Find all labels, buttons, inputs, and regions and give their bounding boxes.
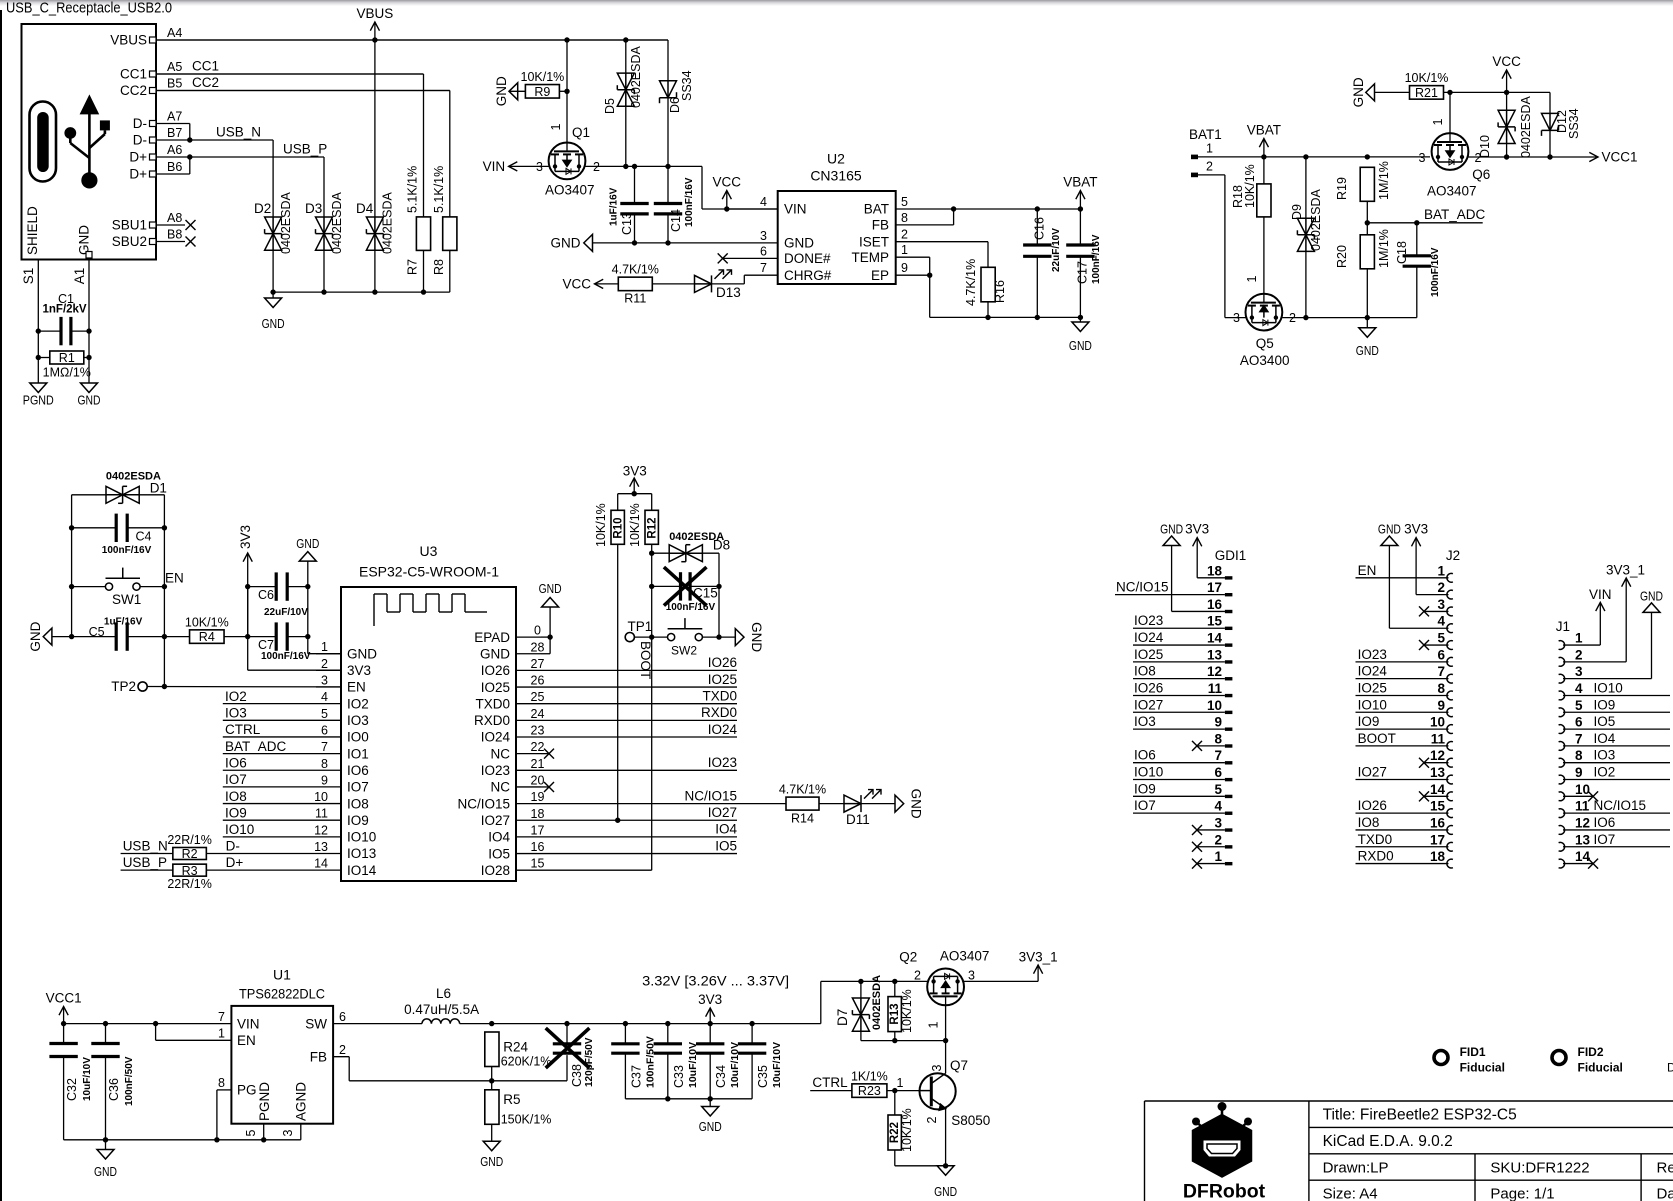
svg-text:IO3: IO3 (225, 706, 247, 721)
wire D7 top (860, 981, 862, 998)
svg-text:PG: PG (237, 1083, 257, 1098)
wire EN up (155, 1024, 157, 1041)
value L6 (404, 1002, 479, 1017)
svg-text:RXD0: RXD0 (474, 713, 510, 728)
junction (649, 634, 654, 639)
svg-text:100nF/16V: 100nF/16V (261, 651, 311, 662)
svg-text:12: 12 (1575, 815, 1590, 830)
ground (895, 789, 924, 819)
schottky diode D12 (1542, 113, 1559, 135)
svg-text:IO7: IO7 (225, 772, 247, 787)
wire D4 top (374, 40, 376, 217)
wire gnd stub c36 (105, 1140, 107, 1150)
no-connect (1419, 791, 1429, 801)
svg-text:10K/1%: 10K/1% (521, 70, 565, 84)
wire USB_P to R3 (121, 869, 173, 871)
pin 10 J2 (1430, 715, 1453, 734)
wire J2 pin12 (1424, 762, 1449, 764)
wire gnd rail C6C7 (308, 561, 341, 654)
svg-text:7: 7 (218, 1010, 225, 1024)
ref Q7 (950, 1058, 968, 1073)
wire IO24 (541, 736, 737, 738)
antenna icon U3 (374, 594, 487, 626)
svg-text:R16: R16 (993, 280, 1007, 303)
wire C14 top (667, 166, 669, 203)
wire IO6 GDI1 (1133, 762, 1225, 764)
transistor Q2 AO3407 (927, 969, 964, 1006)
resistor R16 (964, 259, 1007, 306)
pin 10 GDI1 (1207, 698, 1232, 714)
pin 8 GDI1 (1214, 731, 1232, 747)
svg-text:2: 2 (321, 657, 328, 671)
wire gnd j1 (1563, 612, 1652, 678)
svg-text:VBUS: VBUS (110, 33, 147, 48)
pin 16 IO5 U3 (488, 840, 544, 861)
svg-text:IO6: IO6 (225, 755, 247, 770)
svg-text:3: 3 (281, 1129, 295, 1136)
wire R12 top (651, 494, 653, 511)
value U2 CN3165 (810, 168, 862, 184)
wire BAT_ADC (223, 753, 316, 755)
svg-text:RXD0: RXD0 (701, 705, 737, 720)
pin 14 J1 (1559, 849, 1591, 868)
wire D12 bottom (1549, 130, 1551, 157)
svg-text:GND: GND (1640, 588, 1663, 603)
svg-text:SBU2: SBU2 (112, 234, 147, 249)
TVS diode D2 (265, 217, 282, 250)
net label IO7 J1 (1594, 832, 1616, 847)
TVS diode D9 (1297, 218, 1314, 251)
wire R2 to pin13 (206, 853, 316, 855)
svg-text:7: 7 (1214, 748, 1222, 763)
svg-text:IO5: IO5 (715, 838, 737, 853)
ref D2 (254, 201, 271, 216)
svg-text:IO24: IO24 (481, 730, 511, 745)
wire R7 bottom (423, 250, 425, 292)
wire AGND down (300, 1124, 302, 1140)
no-connect (1192, 825, 1202, 835)
svg-text:1: 1 (1206, 142, 1213, 156)
kicad version (1323, 1133, 1453, 1150)
svg-text:L6: L6 (436, 986, 451, 1001)
pin B7 D- (133, 126, 190, 148)
pin 3 AGND U1 (281, 1082, 309, 1137)
svg-text:R11: R11 (624, 292, 646, 306)
svg-text:26: 26 (531, 674, 545, 688)
svg-text:13: 13 (314, 840, 328, 854)
pin 3 Q7 (930, 1064, 944, 1071)
svg-text:6: 6 (760, 244, 767, 258)
svg-text:CHRG#: CHRG# (784, 268, 832, 283)
wire D1 right (139, 494, 164, 496)
pin 21 IO23 U3 (481, 757, 545, 778)
wire NC20 (541, 786, 549, 788)
value C33 (687, 1042, 699, 1088)
net label CTRL (225, 722, 261, 737)
net label IO23 J2 (1358, 647, 1387, 662)
ref Q1 (572, 125, 590, 140)
pin A1 GND (72, 252, 92, 332)
svg-text:GND: GND (909, 789, 924, 819)
junction (69, 584, 74, 589)
TVS diode D1 (106, 486, 139, 503)
svg-text:DFRobot: DFRobot (1183, 1181, 1266, 1201)
wire IO28 (541, 637, 652, 870)
svg-text:10: 10 (1207, 698, 1222, 713)
wire R9-gate (559, 90, 567, 92)
svg-text:R5: R5 (503, 1092, 520, 1107)
pin 24 RXD0 U3 (474, 707, 545, 728)
svg-text:IO10: IO10 (347, 830, 376, 845)
fiducial FID1 (1434, 1045, 1505, 1075)
pin 10 J1 (1559, 782, 1590, 801)
wire EN riser (156, 1039, 232, 1041)
net label USB_P (123, 855, 167, 870)
pin 27 IO26 U3 (481, 657, 545, 678)
power VIN J1 (1589, 587, 1612, 645)
net label IO3 J1 (1594, 748, 1616, 763)
svg-text:IO6: IO6 (1594, 815, 1616, 830)
inductor L6 (422, 1019, 460, 1024)
svg-text:1: 1 (321, 640, 328, 654)
pin 5 J1 (1559, 698, 1583, 717)
svg-text:IO27: IO27 (1134, 697, 1163, 712)
svg-text:FB: FB (872, 218, 889, 233)
capacitor C14 (654, 204, 682, 214)
svg-text:9: 9 (1214, 715, 1222, 730)
junction (547, 634, 552, 639)
svg-text:3.32V [3.26V ... 3.37V]: 3.32V [3.26V ... 3.37V] (642, 973, 789, 989)
net label IO4 (715, 822, 737, 837)
junction (1365, 154, 1370, 159)
net label BOOT (638, 641, 653, 679)
capacitor C34 (696, 1044, 724, 1053)
pin 1 TEMP U2 (851, 243, 908, 265)
junction (1504, 90, 1509, 95)
no-connect (1192, 842, 1202, 852)
junction (1035, 206, 1040, 211)
wire C7 left (248, 636, 277, 638)
svg-text:GND: GND (94, 1164, 117, 1179)
wire 3v3 j2 (1416, 594, 1448, 596)
ref D13 (716, 285, 741, 300)
net label IO24 GDI1 (1134, 630, 1164, 645)
svg-text:17: 17 (1207, 580, 1222, 595)
svg-text:5: 5 (321, 707, 328, 721)
pin 8 J1 (1559, 748, 1583, 767)
junction (1365, 315, 1370, 320)
wire R13 top (894, 981, 896, 996)
svg-text:EN: EN (237, 1033, 256, 1048)
wire R18 top (1263, 157, 1265, 184)
svg-text:14: 14 (314, 857, 328, 871)
wire IO6 J1 (1563, 829, 1670, 831)
junction (153, 1021, 158, 1026)
wire RXD0 J2 (1356, 863, 1449, 865)
pin 17 IO4 U3 (488, 823, 544, 844)
svg-text:AO3407: AO3407 (940, 949, 990, 964)
svg-text:C14: C14 (669, 209, 683, 232)
junction (623, 1021, 628, 1026)
pin 22 NC U3 (491, 740, 545, 761)
svg-text:2: 2 (925, 1116, 939, 1123)
svg-text:3V3: 3V3 (238, 525, 253, 549)
capacitor C16 (1023, 245, 1051, 256)
svg-text:IO10: IO10 (1134, 765, 1163, 780)
pin 12 J2 (1430, 748, 1453, 767)
ref C16 (1033, 217, 1047, 240)
svg-text:150K/1%: 150K/1% (501, 1113, 552, 1127)
svg-text:11: 11 (1431, 731, 1446, 746)
svg-text:C6: C6 (258, 588, 274, 602)
power GND J1 (1640, 588, 1663, 612)
svg-text:A6: A6 (167, 143, 182, 157)
svg-text:3: 3 (1575, 664, 1583, 679)
junction (564, 1021, 569, 1026)
wire USB_P (190, 157, 324, 217)
wire IO26 GDI1 (1133, 694, 1225, 696)
wire C16 bot (1036, 256, 1038, 317)
svg-text:PGND: PGND (257, 1082, 272, 1121)
svg-text:C7: C7 (258, 638, 274, 652)
pin 1 Q2 (927, 1021, 941, 1028)
pin 13 IO13 U3 (314, 840, 376, 861)
value 0402ESDA D4 (381, 191, 395, 254)
value C35 (771, 1042, 783, 1088)
value Q2 (940, 949, 990, 964)
connector J1 ref (1556, 619, 1570, 634)
pin 18 IO27 U3 (481, 807, 545, 828)
wire D10 top (1506, 92, 1508, 110)
svg-text:GND: GND (551, 236, 581, 251)
ref R11 below (624, 292, 646, 306)
pin B8 SBU2 (112, 228, 185, 250)
value D12 (1567, 108, 1581, 139)
svg-text:620K/1%: 620K/1% (501, 1054, 552, 1068)
svg-text:EPAD: EPAD (474, 630, 510, 645)
ref C4 (136, 530, 152, 544)
cross over C15 (664, 567, 707, 606)
svg-text:0402ESDA: 0402ESDA (381, 191, 395, 254)
wire IO4 J1 (1563, 745, 1670, 747)
svg-text:SW: SW (305, 1016, 327, 1031)
wire 3v3 split (618, 493, 652, 495)
wire R19 bottom (1366, 201, 1368, 235)
svg-text:2: 2 (1437, 580, 1445, 595)
wire R5 bot (491, 1124, 493, 1141)
svg-text:14: 14 (1207, 631, 1223, 646)
wire A1 down (88, 331, 90, 383)
net label IO4 J1 (1594, 731, 1616, 746)
svg-text:VBAT: VBAT (1063, 175, 1097, 190)
wire D3 bottom (323, 250, 325, 292)
svg-text:15: 15 (531, 857, 545, 871)
value D6 (680, 70, 694, 101)
pin 6 J1 (1559, 715, 1583, 734)
svg-text:C35: C35 (756, 1065, 770, 1088)
wire D13-CHRG (712, 275, 778, 284)
capacitor C18 (1403, 256, 1431, 266)
wire C1 left (38, 330, 61, 332)
svg-text:24: 24 (531, 707, 545, 721)
wire IO3 J1 (1563, 762, 1670, 764)
IC U2 CN3165 box (778, 191, 896, 284)
wire C36 top (105, 1024, 107, 1044)
wire R3 to pin14 (206, 869, 316, 871)
junction (665, 240, 670, 245)
svg-text:9: 9 (901, 261, 908, 275)
svg-text:R12: R12 (647, 517, 659, 538)
svg-text:B7: B7 (167, 126, 182, 140)
pin S1 (21, 260, 38, 332)
capacitor C35 (738, 1044, 766, 1053)
junction (372, 289, 377, 294)
resistor R2 (167, 833, 211, 861)
svg-text:FB: FB (310, 1049, 327, 1064)
svg-text:0402ESDA: 0402ESDA (1309, 188, 1323, 251)
net label IO10 GDI1 (1134, 765, 1163, 780)
resistor R1 (43, 351, 91, 380)
svg-text:R1: R1 (59, 351, 75, 365)
svg-text:U2: U2 (827, 151, 845, 167)
ref D10 (1478, 135, 1492, 158)
wire A6-B6 join (189, 157, 191, 174)
svg-text:C32: C32 (65, 1078, 79, 1101)
net label IO6 J1 (1594, 815, 1616, 830)
wire IO7 (223, 786, 316, 788)
svg-text:IO27: IO27 (1358, 765, 1387, 780)
svg-text:D3: D3 (305, 201, 322, 216)
svg-text:IO14: IO14 (347, 863, 377, 878)
svg-text:8: 8 (901, 211, 908, 225)
net label IO27 GDI1 (1134, 697, 1163, 712)
svg-text:IO27: IO27 (708, 805, 737, 820)
svg-text:VCC: VCC (713, 175, 742, 190)
wire R12 down (651, 544, 653, 637)
pin 2 J1 (1559, 647, 1583, 666)
svg-text:IO8: IO8 (225, 789, 247, 804)
net label IO5 J1 (1594, 714, 1616, 729)
svg-text:IO10: IO10 (1358, 697, 1387, 712)
pin 1 BAT1 (1191, 142, 1213, 160)
pin 28 GND U3 (480, 640, 544, 661)
pin 3 J1 (1559, 664, 1583, 683)
svg-text:4.7K/1%: 4.7K/1% (779, 783, 826, 797)
wire VBUS rail (156, 39, 668, 41)
svg-text:FID2: FID2 (1578, 1045, 1604, 1059)
junction (103, 1021, 108, 1026)
svg-text:S1: S1 (21, 268, 36, 285)
ref U1 (273, 967, 291, 983)
wire IO5 J1 (1563, 728, 1670, 730)
wire R10 top (617, 494, 619, 511)
svg-text:IO9: IO9 (1134, 781, 1156, 796)
svg-text:SBU1: SBU1 (112, 218, 147, 233)
svg-text:A4: A4 (167, 26, 182, 40)
net label EN J2 (1358, 563, 1377, 578)
wire IO23 J2 (1356, 661, 1449, 663)
svg-text:IO24: IO24 (708, 722, 738, 737)
svg-text:1: 1 (218, 1027, 225, 1041)
wire gnd stub (272, 292, 274, 298)
svg-text:R24: R24 (503, 1039, 528, 1054)
svg-text:D: D (1667, 1061, 1673, 1075)
junction (716, 584, 721, 589)
wire A7-B7 join (189, 124, 191, 141)
wire IO26 (541, 669, 737, 671)
svg-text:NC: NC (491, 746, 511, 761)
wire R21 right (1444, 91, 1551, 93)
resistor R19 (1335, 161, 1391, 201)
ground (699, 1107, 722, 1135)
svg-text:3: 3 (1437, 597, 1445, 612)
capacitor C4 (116, 514, 127, 542)
wire SW2 right (702, 636, 735, 638)
svg-text:13: 13 (1430, 765, 1446, 780)
svg-text:GND: GND (480, 646, 510, 661)
svg-text:IO23: IO23 (708, 755, 737, 770)
pin 1 Q7 (897, 1076, 904, 1090)
wire TP2-EN (147, 686, 341, 688)
junction (187, 154, 192, 159)
svg-text:2: 2 (1206, 160, 1213, 174)
svg-text:TXD0: TXD0 (1358, 832, 1393, 847)
wire C15-SW2 (718, 586, 720, 637)
value Q7 (951, 1113, 990, 1128)
wire C7 right (287, 636, 308, 638)
pin name SHIELD (25, 206, 40, 255)
pin 9 IO7 U3 (316, 773, 369, 794)
svg-text:D8: D8 (713, 538, 730, 553)
svg-text:23: 23 (531, 724, 545, 738)
wire R18 bottom (1263, 217, 1265, 303)
svg-text:9: 9 (1575, 765, 1583, 780)
wire IO9 J2 (1356, 728, 1449, 730)
ground (494, 76, 518, 106)
svg-text:Title: FireBeetle2 ESP32-C5: Title: FireBeetle2 ESP32-C5 (1323, 1107, 1517, 1124)
wire FB net (333, 1055, 567, 1081)
svg-text:TPS62822DLC: TPS62822DLC (239, 986, 325, 1002)
size (1323, 1186, 1378, 1201)
ref D9 (1290, 204, 1304, 220)
pin 12 GDI1 (1207, 664, 1232, 680)
wire R21 left (1375, 91, 1410, 93)
wire VIN j1 (1563, 644, 1600, 646)
svg-text:CC2: CC2 (192, 75, 219, 90)
wire EN right rail (163, 495, 165, 687)
capacitor C1 (61, 317, 71, 345)
svg-text:GND: GND (77, 225, 92, 255)
value R3 below (167, 877, 211, 891)
wire gnd stub U2 (1079, 317, 1081, 322)
pin 9 EP U2 (871, 261, 908, 283)
net label IO3 GDI1 (1134, 714, 1156, 729)
junction (1035, 315, 1040, 320)
junction (69, 525, 74, 530)
svg-text:AO3407: AO3407 (1427, 184, 1477, 199)
capacitor C36 (91, 1044, 119, 1057)
pin 4 J1 (1559, 681, 1583, 700)
wire BAT (896, 208, 1081, 210)
junction (708, 1096, 713, 1101)
value C32 (82, 1057, 93, 1101)
svg-text:3: 3 (1233, 311, 1240, 325)
value C17 (1091, 234, 1102, 284)
net label IO10 (225, 822, 254, 837)
svg-text:Q5: Q5 (1256, 336, 1274, 351)
svg-text:Fiducial: Fiducial (1460, 1061, 1505, 1075)
wire C13 bot (634, 214, 636, 243)
